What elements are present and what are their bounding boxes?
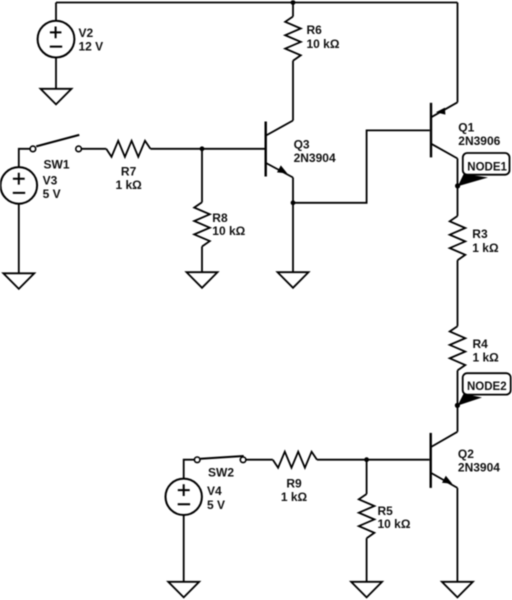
wire Q2 emitter to ground — [456, 488, 458, 582]
svg-text:10 kΩ: 10 kΩ — [378, 517, 411, 531]
resistor R4 — [450, 326, 466, 370]
wire R8 bottom stub — [201, 247, 203, 273]
svg-text:NODE1: NODE1 — [467, 161, 507, 173]
svg-text:R5: R5 — [378, 504, 394, 518]
wire NODE1 to R3 — [457, 186, 459, 216]
svg-text:R4: R4 — [473, 337, 489, 351]
svg-text:1 kΩ: 1 kΩ — [115, 178, 142, 192]
svg-text:SW1: SW1 — [44, 158, 70, 172]
switch SW2 — [194, 456, 246, 463]
svg-text:1 kΩ: 1 kΩ — [473, 351, 500, 365]
transistor Q1 — [431, 102, 458, 158]
svg-text:2N3904: 2N3904 — [294, 151, 336, 165]
ground below R8 — [187, 272, 218, 288]
svg-text:V2: V2 — [79, 26, 94, 40]
node NODE1 bubble — [463, 153, 510, 175]
wire Q3 emitter stub — [292, 178, 294, 203]
wire R9 to Q2 base — [317, 459, 429, 461]
wire SW2 to R9 — [246, 459, 273, 461]
wire R6 top stub — [292, 3, 294, 17]
voltage source V4 — [166, 479, 202, 515]
wire SW1 to R7 — [81, 148, 106, 150]
wire Q1 emitter top stub — [457, 3, 459, 103]
wire top rail — [56, 2, 458, 4]
wire V2 bottom stub — [55, 58, 57, 89]
wire R4 to Q2 collector — [457, 370, 459, 431]
svg-text:5 V: 5 V — [207, 498, 225, 512]
svg-text:5 V: 5 V — [43, 187, 61, 201]
node junction R9/R5 — [364, 457, 369, 462]
wire V4 bottom stub — [183, 515, 185, 582]
node junction top rail / R6 — [291, 0, 296, 5]
svg-text:Q3: Q3 — [294, 138, 310, 152]
voltage source V2 — [38, 21, 75, 58]
resistor R5 — [359, 494, 375, 538]
transistor Q2 — [431, 432, 458, 488]
node junction NODE1 — [455, 183, 460, 188]
svg-text:10 kΩ: 10 kΩ — [212, 224, 245, 238]
ground below R5 — [351, 582, 382, 598]
svg-text:R3: R3 — [472, 227, 488, 241]
svg-text:R6: R6 — [307, 23, 323, 37]
wire V2 top stub — [55, 3, 57, 21]
svg-text:10 kΩ: 10 kΩ — [307, 37, 340, 51]
ground below V2 — [41, 89, 72, 105]
wire R5 top branch — [366, 460, 368, 494]
svg-text:1 kΩ: 1 kΩ — [472, 241, 499, 255]
switch SW1 — [30, 135, 81, 152]
svg-text:2N3904: 2N3904 — [458, 461, 500, 475]
wire R7 to Q3 base — [150, 148, 264, 150]
svg-text:R7: R7 — [121, 165, 137, 179]
ground below Q2 — [442, 582, 473, 598]
node NODE2 pointer — [458, 394, 482, 406]
node junction R7/R8 — [200, 146, 205, 151]
node NODE2 bubble — [463, 373, 511, 394]
svg-text:1 kΩ: 1 kΩ — [281, 490, 308, 504]
ground below V4 — [168, 582, 199, 598]
svg-text:NODE2: NODE2 — [467, 381, 507, 393]
node junction Q3 emitter — [291, 200, 296, 205]
wire Q3 emitter to Q1 base — [293, 130, 430, 202]
resistor R3 — [450, 216, 466, 260]
wire R5 bottom stub — [366, 538, 368, 582]
resistor R6 — [285, 17, 301, 61]
resistor R8 — [194, 202, 210, 246]
wire Q1 collector stub — [457, 159, 459, 187]
wire V3 bottom stub — [18, 204, 20, 274]
transistor Q3 — [266, 121, 293, 178]
wire V4 top to SW2 — [184, 460, 195, 479]
svg-text:R9: R9 — [286, 476, 302, 490]
svg-text:V4: V4 — [207, 484, 222, 498]
svg-text:V3: V3 — [43, 174, 58, 188]
wire R8 top branch — [201, 149, 203, 203]
wire R3 to R4 — [457, 260, 459, 326]
svg-text:Q1: Q1 — [458, 120, 474, 134]
svg-text:2N3906: 2N3906 — [458, 134, 500, 148]
wire R6 to Q3 collector — [292, 61, 294, 121]
ground below Q3 — [278, 272, 309, 288]
svg-text:SW2: SW2 — [208, 466, 234, 480]
ground below V3 — [3, 273, 34, 289]
resistor R7 — [106, 141, 150, 157]
voltage source V3 — [1, 167, 38, 204]
svg-text:12 V: 12 V — [79, 40, 104, 54]
wire Q3 emitter to ground — [292, 203, 294, 272]
svg-text:R8: R8 — [212, 211, 228, 225]
node NODE1 pointer — [458, 174, 488, 186]
resistor R9 — [273, 452, 317, 468]
node junction NODE2 — [455, 403, 460, 408]
svg-text:Q2: Q2 — [458, 447, 474, 461]
wire V3 top to SW1 — [19, 149, 30, 167]
